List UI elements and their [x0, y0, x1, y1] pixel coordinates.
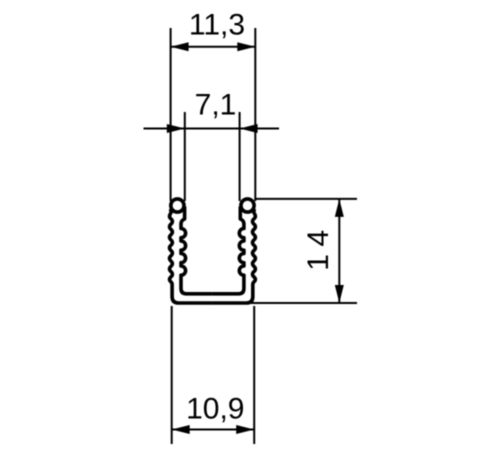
- svg-text:14: 14: [302, 222, 335, 270]
- svg-text:11,3: 11,3: [189, 9, 245, 42]
- svg-text:10,9: 10,9: [186, 393, 244, 426]
- svg-text:7,1: 7,1: [195, 89, 237, 122]
